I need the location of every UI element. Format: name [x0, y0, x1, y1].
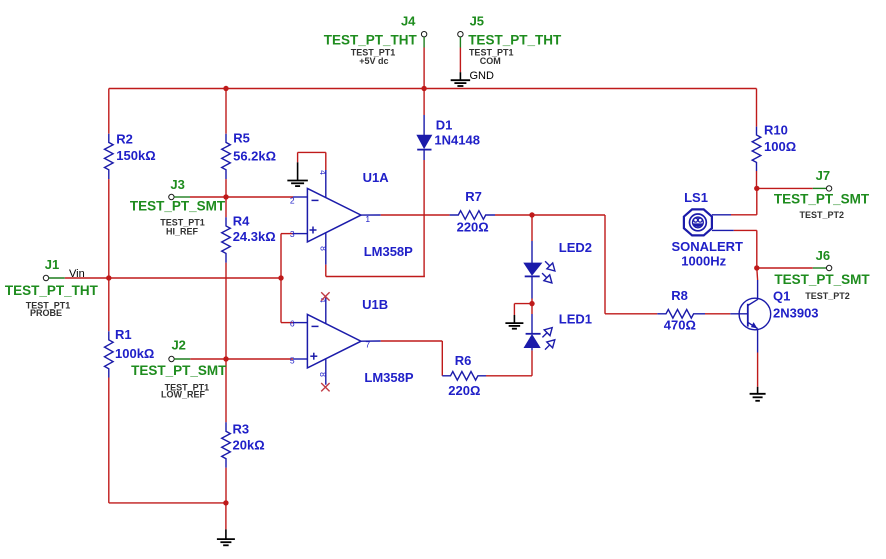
resistor R2 [105, 132, 156, 180]
ground LED mid [505, 315, 523, 329]
svg-text:220Ω: 220Ω [457, 220, 489, 235]
transistor Q1 [730, 289, 818, 330]
svg-text:R5: R5 [233, 131, 250, 146]
wire R6 to LED1 [486, 375, 532, 377]
svg-text:TEST_PT_SMT: TEST_PT_SMT [130, 198, 226, 213]
svg-text:SONALERT: SONALERT [672, 239, 744, 254]
svg-text:J4: J4 [401, 13, 416, 28]
U1B power pin 4 stub [318, 297, 328, 323]
wire J5 stub green [459, 37, 461, 48]
test point J3 label [170, 177, 184, 192]
wire down to R8 level [604, 215, 606, 314]
test point J7 name [774, 191, 870, 206]
test point J4 label [401, 13, 416, 28]
U1B pin 7 number [365, 340, 370, 350]
wire Q1 collector [756, 268, 759, 299]
wire junction to right corner [532, 214, 605, 216]
ground bottom [217, 529, 235, 545]
test point J5 name [468, 33, 562, 48]
wire J4 stub green [423, 37, 425, 48]
wire U1B output right [381, 340, 443, 342]
svg-text:J2: J2 [171, 338, 185, 353]
resistor R4 [222, 214, 276, 263]
wire rail to D1 [423, 89, 425, 116]
wire down to R6 [441, 341, 443, 376]
resistor R7 [450, 189, 495, 234]
svg-text:5: 5 [290, 356, 295, 366]
test point J5 pin label COM [480, 56, 501, 66]
wire U1A pin4 to ground [298, 152, 326, 170]
svg-text:1000Hz: 1000Hz [681, 253, 726, 268]
wire J6 junction right [757, 267, 813, 269]
no-connect X U1B pin8 [321, 383, 329, 391]
ground Q1 [750, 387, 766, 401]
wire mid junction to ground [514, 304, 532, 315]
resistor R6 [442, 353, 486, 398]
node J2 junction [223, 356, 228, 361]
svg-text:1N4148: 1N4148 [434, 133, 480, 148]
svg-text:TEST_PT_SMT: TEST_PT_SMT [774, 191, 870, 206]
svg-text:U1A: U1A [363, 170, 390, 185]
svg-text:+5V dc: +5V dc [359, 56, 388, 66]
svg-text:56.2kΩ: 56.2kΩ [233, 148, 276, 163]
wire LED2 junction down [531, 215, 533, 241]
wire bottom rail [109, 502, 226, 504]
LED D2 (LED2) [524, 240, 592, 298]
svg-text:PROBE: PROBE [30, 308, 62, 318]
test point J1 label [45, 257, 59, 272]
resistor R5 [222, 131, 276, 180]
svg-text:TEST_PT2: TEST_PT2 [800, 210, 845, 220]
wire U1A pin8 to D1 net [326, 265, 425, 277]
svg-text:TEST_PT_THT: TEST_PT_THT [5, 283, 99, 298]
node J3 junction [223, 194, 228, 199]
wire to U1B pin6 [281, 322, 307, 324]
wire J3 to junction [190, 196, 226, 198]
wire J7 stub green [813, 187, 827, 189]
wire J3 junction to U1A pin2 [226, 196, 307, 198]
U1B pin 6 number [290, 319, 295, 329]
svg-text:D1: D1 [436, 118, 453, 133]
svg-text:LS1: LS1 [684, 190, 708, 205]
resistor R8 [657, 288, 705, 333]
test point J2 circle [169, 356, 174, 361]
test point J2 label [171, 338, 185, 353]
U1A pin 1 number [365, 214, 370, 224]
svg-text:U1B: U1B [362, 297, 388, 312]
test point J3 refdes [160, 217, 205, 227]
wire R5 bottom to J3 junction [225, 179, 227, 197]
node LED2 junction [529, 212, 534, 217]
node LED mid junction [529, 301, 534, 306]
svg-text:20kΩ: 20kΩ [233, 438, 265, 453]
svg-text:LED1: LED1 [559, 312, 592, 327]
wire to R8 [605, 313, 657, 315]
op-amp U1B [307, 297, 413, 385]
node bottom rail junction [223, 500, 228, 505]
svg-text:8: 8 [319, 246, 329, 251]
wire J6 stub green [813, 267, 827, 269]
test point J2 name [131, 363, 227, 378]
wire up to LED1 [531, 350, 533, 375]
test point J4 refdes [351, 48, 396, 58]
wire U1A output to R7 [381, 214, 450, 216]
svg-text:R4: R4 [233, 214, 250, 229]
wire LED2 to mid junction [531, 299, 533, 304]
wire +5V top rail [109, 88, 757, 90]
wire R1 bottom to bottom rail [108, 378, 110, 503]
wire J2 stub green [174, 358, 190, 360]
svg-text:GND: GND [470, 70, 495, 82]
svg-text:COM: COM [480, 56, 501, 66]
test point J1 circle [43, 275, 48, 280]
svg-text:8: 8 [318, 372, 328, 377]
wire J4 to rail [423, 48, 425, 89]
wire left vertical R2/R1 column upper [108, 89, 110, 134]
U1A power pin 4 stub [318, 170, 328, 198]
wire sonalert to J6 junction [756, 230, 758, 268]
svg-text:R6: R6 [455, 353, 472, 368]
test point J3 name [130, 198, 226, 213]
svg-text:TEST_PT_SMT: TEST_PT_SMT [774, 272, 870, 287]
svg-text:4: 4 [318, 170, 328, 175]
wire U1A output stub [361, 214, 381, 216]
wire J2 junction to U1B pin5 [226, 358, 307, 360]
test point J2 pin label LOW_REF [161, 390, 206, 400]
wire to sonalert top pin [712, 214, 757, 216]
wire R4 bottom to J2 junction [225, 263, 227, 359]
wire U1B output stub [361, 340, 381, 342]
wire J7 junction right [757, 187, 813, 189]
wire J3 stub green [174, 196, 190, 198]
wire J1 junction to R1 [108, 278, 110, 331]
svg-text:Q1: Q1 [773, 289, 790, 304]
test point J5 circle [458, 32, 463, 37]
test point J2 refdes [165, 382, 210, 392]
test point J1 pin label PROBE [30, 308, 62, 318]
wire J2 junction to R3 [225, 359, 227, 422]
node J6 junction [754, 265, 759, 270]
node J1 junction [106, 275, 111, 280]
resistor R10 [752, 122, 796, 171]
svg-text:J3: J3 [170, 177, 184, 192]
U1A pin 2 number [290, 195, 295, 205]
svg-text:LED2: LED2 [559, 240, 592, 255]
test point J6 name [774, 272, 870, 287]
wire to U1A pin3 [281, 233, 307, 235]
svg-text:LM358P: LM358P [364, 244, 413, 259]
wire J1 to left column [65, 277, 109, 279]
wire Vin horizontal [109, 277, 281, 279]
diode D1 [417, 115, 480, 160]
test point J3 circle [169, 194, 174, 199]
svg-text:R2: R2 [116, 132, 133, 147]
svg-text:3: 3 [290, 229, 295, 239]
wire mid junction to LED1 [531, 304, 533, 314]
svg-text:J7: J7 [816, 168, 830, 183]
svg-text:100kΩ: 100kΩ [115, 346, 154, 361]
wire J1 stub green [49, 277, 65, 279]
svg-text:J5: J5 [470, 13, 484, 28]
no-connect X U1B pin4 [321, 292, 329, 300]
wire D1 to U1A pin8 corner [423, 160, 425, 277]
U1A pin 3 number [290, 229, 295, 239]
node J7 junction [754, 186, 759, 191]
test point J6 circle [826, 265, 831, 270]
wire R2 bottom to J1 junction [108, 179, 110, 278]
wire J5 to ground [459, 48, 461, 73]
test point J7 label [816, 168, 830, 183]
test point J4 pin label +5V dc [359, 56, 388, 66]
svg-text:LM358P: LM358P [364, 370, 413, 385]
test point J7 refdes [800, 210, 845, 220]
node Vin junction [278, 275, 283, 280]
sounder LS1 [672, 190, 744, 268]
wire J2 to junction [190, 358, 226, 360]
wire J3 junction to R4 [225, 197, 227, 217]
wire J7 junction down [756, 188, 758, 214]
svg-text:R1: R1 [115, 327, 132, 342]
node J4 rail junction [421, 86, 426, 91]
test point J4 circle [421, 32, 426, 37]
ground J5 [451, 72, 471, 86]
svg-text:100Ω: 100Ω [764, 139, 796, 154]
svg-text:470Ω: 470Ω [664, 318, 696, 333]
svg-text:150kΩ: 150kΩ [116, 148, 155, 163]
svg-text:TEST_PT_SMT: TEST_PT_SMT [131, 363, 227, 378]
test point J6 label [816, 248, 830, 263]
svg-text:TEST_PT_THT: TEST_PT_THT [468, 33, 562, 48]
test point J7 circle [826, 186, 831, 191]
svg-text:R3: R3 [233, 421, 250, 436]
wire Vin vertical [280, 234, 282, 323]
svg-text:6: 6 [290, 319, 295, 329]
svg-text:HI_REF: HI_REF [166, 226, 199, 236]
svg-text:R7: R7 [465, 189, 482, 204]
wire sonalert bottom pin [712, 229, 757, 231]
svg-text:TEST_PT2: TEST_PT2 [805, 291, 850, 301]
wire R10 to J7 junction [756, 171, 758, 188]
test point J1 refdes [26, 301, 71, 311]
U1A power pin 8 stub [319, 233, 329, 265]
LED D1 (LED1) [524, 312, 592, 351]
resistor R1 [105, 327, 155, 378]
op-amp U1A [307, 170, 413, 259]
svg-text:2: 2 [290, 195, 295, 205]
test point J5 refdes [469, 48, 514, 58]
test point J6 refdes [805, 291, 850, 301]
svg-text:TEST_PT_THT: TEST_PT_THT [324, 33, 418, 48]
svg-text:J6: J6 [816, 248, 830, 263]
U1B pin 5 number [290, 356, 295, 366]
svg-text:LOW_REF: LOW_REF [161, 390, 206, 400]
test point J3 pin label HI_REF [166, 226, 199, 236]
resistor R3 [222, 421, 265, 467]
wire junction to ground stem [225, 503, 227, 530]
svg-text:R8: R8 [671, 288, 688, 303]
ground U1A [287, 162, 308, 186]
wire R8 to Q1 base [705, 313, 730, 315]
test point J1 name [5, 283, 99, 298]
wire R7 to LED2 junction [495, 214, 532, 216]
svg-text:220Ω: 220Ω [448, 383, 480, 398]
svg-text:R10: R10 [764, 122, 788, 137]
svg-text:2N3903: 2N3903 [773, 306, 819, 321]
net label Vin [69, 268, 85, 280]
wire Q1 emitter [757, 329, 759, 387]
wire R3 bottom to ground [225, 468, 227, 503]
net label GND [470, 70, 495, 82]
test point J4 name [324, 33, 418, 48]
test point J5 label [470, 13, 484, 28]
svg-text:24.3kΩ: 24.3kΩ [233, 229, 276, 244]
wire rail right corner down to R10 [756, 89, 758, 127]
node rail-R5 junction [223, 86, 228, 91]
svg-text:J1: J1 [45, 257, 59, 272]
U1B power pin 8 stub [318, 359, 328, 385]
wire rail to R5 [225, 89, 227, 134]
